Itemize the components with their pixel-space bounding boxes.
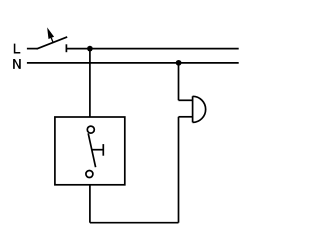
switch unit bottom contact — [86, 171, 93, 178]
wire buzzer bottom jog — [179, 116, 193, 118]
wire N line — [27, 62, 239, 64]
switch unit actuator tick — [102, 144, 104, 156]
node N label — [13, 59, 21, 69]
wire buzzer top jog — [179, 99, 193, 101]
switch S1 blade — [37, 37, 68, 49]
wire from N junction down to buzzer — [178, 63, 180, 100]
wire right vertical lower (buzzer bottom to bottom wire) — [178, 117, 180, 223]
switch unit actuator bar — [92, 149, 104, 151]
wire L line — [66, 48, 238, 50]
switch unit blade — [88, 133, 95, 167]
wire from box bottom down — [89, 185, 91, 223]
switch unit box — [55, 117, 125, 185]
wire bottom horizontal — [90, 222, 179, 224]
buzzer H1 — [193, 96, 206, 122]
switch S1 stub wire — [27, 48, 37, 50]
junction dot on L — [87, 46, 93, 52]
switch S1 actuating arrow — [47, 27, 54, 42]
wire from L junction down to box — [89, 49, 91, 117]
switch unit top contact — [87, 126, 94, 133]
switch S1 fixed contact tick — [65, 44, 67, 52]
node L label — [14, 44, 20, 54]
junction dot on N — [176, 60, 182, 66]
